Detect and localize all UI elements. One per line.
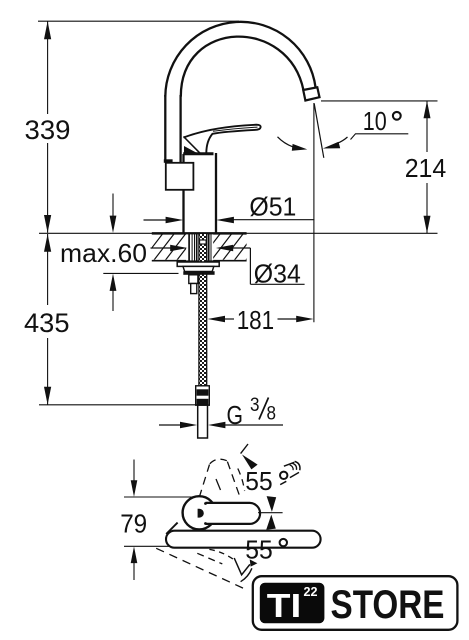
handle inner edge line <box>213 127 258 131</box>
braided hose <box>199 234 207 386</box>
tick arrowhead upper <box>267 496 277 512</box>
spout left tube walls <box>165 95 180 163</box>
dimension 339 line <box>47 21 49 233</box>
mounting nut black band <box>183 271 214 275</box>
dimension 435 arrow up <box>44 234 51 252</box>
body top bar <box>183 152 213 155</box>
dimension O34 arrows at shank <box>151 247 173 249</box>
mounting stud <box>189 275 198 284</box>
lower dashed line long <box>156 548 243 588</box>
svg-text:G: G <box>227 400 244 430</box>
hose end fitting <box>196 386 210 405</box>
79 arrow above <box>133 460 135 487</box>
svg-text:Ø34: Ø34 <box>254 259 301 289</box>
dimension O51 arrows at body <box>144 219 168 221</box>
countertop deck bottom line <box>152 260 247 262</box>
body circle top view <box>183 496 216 529</box>
svg-text:79: 79 <box>120 509 147 539</box>
dimension 339 arrow down <box>44 215 51 233</box>
svg-text:214: 214 <box>405 153 447 183</box>
svg-text:55: 55 <box>245 466 272 496</box>
upper dashed swung spout right edge <box>227 462 239 497</box>
79 arrow below <box>131 546 138 563</box>
lower dashed curve <box>209 549 233 559</box>
10 degree leader <box>351 134 409 140</box>
small arc near logo corner <box>241 568 252 581</box>
aerator tip box <box>303 87 319 100</box>
svg-text:435: 435 <box>24 308 70 338</box>
max60 extension line <box>103 272 178 274</box>
dimension 339 arrow up <box>44 21 51 39</box>
svg-text:Ø51: Ø51 <box>249 192 296 222</box>
junction dot upper <box>204 502 207 505</box>
wedge line <box>166 523 177 534</box>
svg-text:22: 22 <box>304 585 318 599</box>
max60 arrow above <box>112 194 114 223</box>
max60 arrow below <box>110 274 117 291</box>
connection tube G3/8 <box>198 405 208 438</box>
upper dashed inner segment <box>216 479 221 490</box>
side box <box>166 163 194 190</box>
dimension 435 line <box>47 234 49 405</box>
mini dashed capsule top right <box>284 462 294 466</box>
dimension 435 arrow down <box>44 387 51 405</box>
stud nut <box>191 284 197 294</box>
79 extension top <box>124 496 194 498</box>
shank white backdrop <box>186 234 213 260</box>
mounting cone <box>183 266 214 271</box>
extension line top (spout max height) <box>38 20 239 22</box>
shank thread lines <box>189 234 197 261</box>
washer flange under deck <box>177 262 219 266</box>
spout outer arc <box>165 22 315 97</box>
extension line spout outlet <box>321 100 438 102</box>
lower 55 check line <box>234 558 250 575</box>
handle wedge shadow <box>184 146 198 153</box>
svg-text:max.60: max.60 <box>60 238 147 268</box>
lower dashed line short <box>197 553 222 564</box>
G 3/8 dimension <box>159 424 180 426</box>
upper dashed arc to tick <box>238 469 245 492</box>
spout inner arc <box>181 37 304 97</box>
junction dot lower <box>204 522 207 525</box>
svg-text:TI: TI <box>267 588 302 625</box>
upper 55 solid leader <box>241 444 248 454</box>
handle lever <box>184 125 261 153</box>
10 degree arc left <box>278 137 294 147</box>
cartridge black mark <box>198 509 204 518</box>
upper 55 arrowhead <box>242 455 258 470</box>
dimension 214 line <box>426 101 428 233</box>
svg-text:8: 8 <box>267 404 277 425</box>
tick line at lever capsule end <box>258 512 283 514</box>
tick arrowhead lower <box>266 515 276 530</box>
deck hatching <box>141 232 268 262</box>
TI STORE logo black square <box>260 583 325 623</box>
svg-text:181: 181 <box>237 305 275 335</box>
svg-text:STORE: STORE <box>331 583 445 627</box>
upper dashed swung spout left edge <box>199 465 209 498</box>
svg-text:55: 55 <box>245 535 272 565</box>
svg-text:3: 3 <box>250 395 260 416</box>
extension line hose bottom <box>39 404 198 406</box>
shank white notch <box>200 240 207 244</box>
dimension 181 <box>208 316 225 322</box>
side box step <box>164 159 173 163</box>
handle wedge diagonal <box>184 137 201 154</box>
10 degree tilted line <box>314 104 324 158</box>
lever capsule top view <box>206 503 261 524</box>
spout capsule top view <box>166 531 321 548</box>
svg-text:10: 10 <box>363 106 387 136</box>
extension line spout tip vertical <box>313 103 315 322</box>
upper dashed swung spout cap <box>210 459 227 464</box>
countertop deck top line <box>39 232 438 234</box>
10 degree arc right <box>323 142 340 149</box>
svg-text:339: 339 <box>25 115 71 145</box>
lower 55 arrowhead <box>250 559 258 566</box>
body column <box>184 153 217 234</box>
79 extension bottom <box>124 545 174 547</box>
TI STORE logo outer box <box>253 576 458 630</box>
